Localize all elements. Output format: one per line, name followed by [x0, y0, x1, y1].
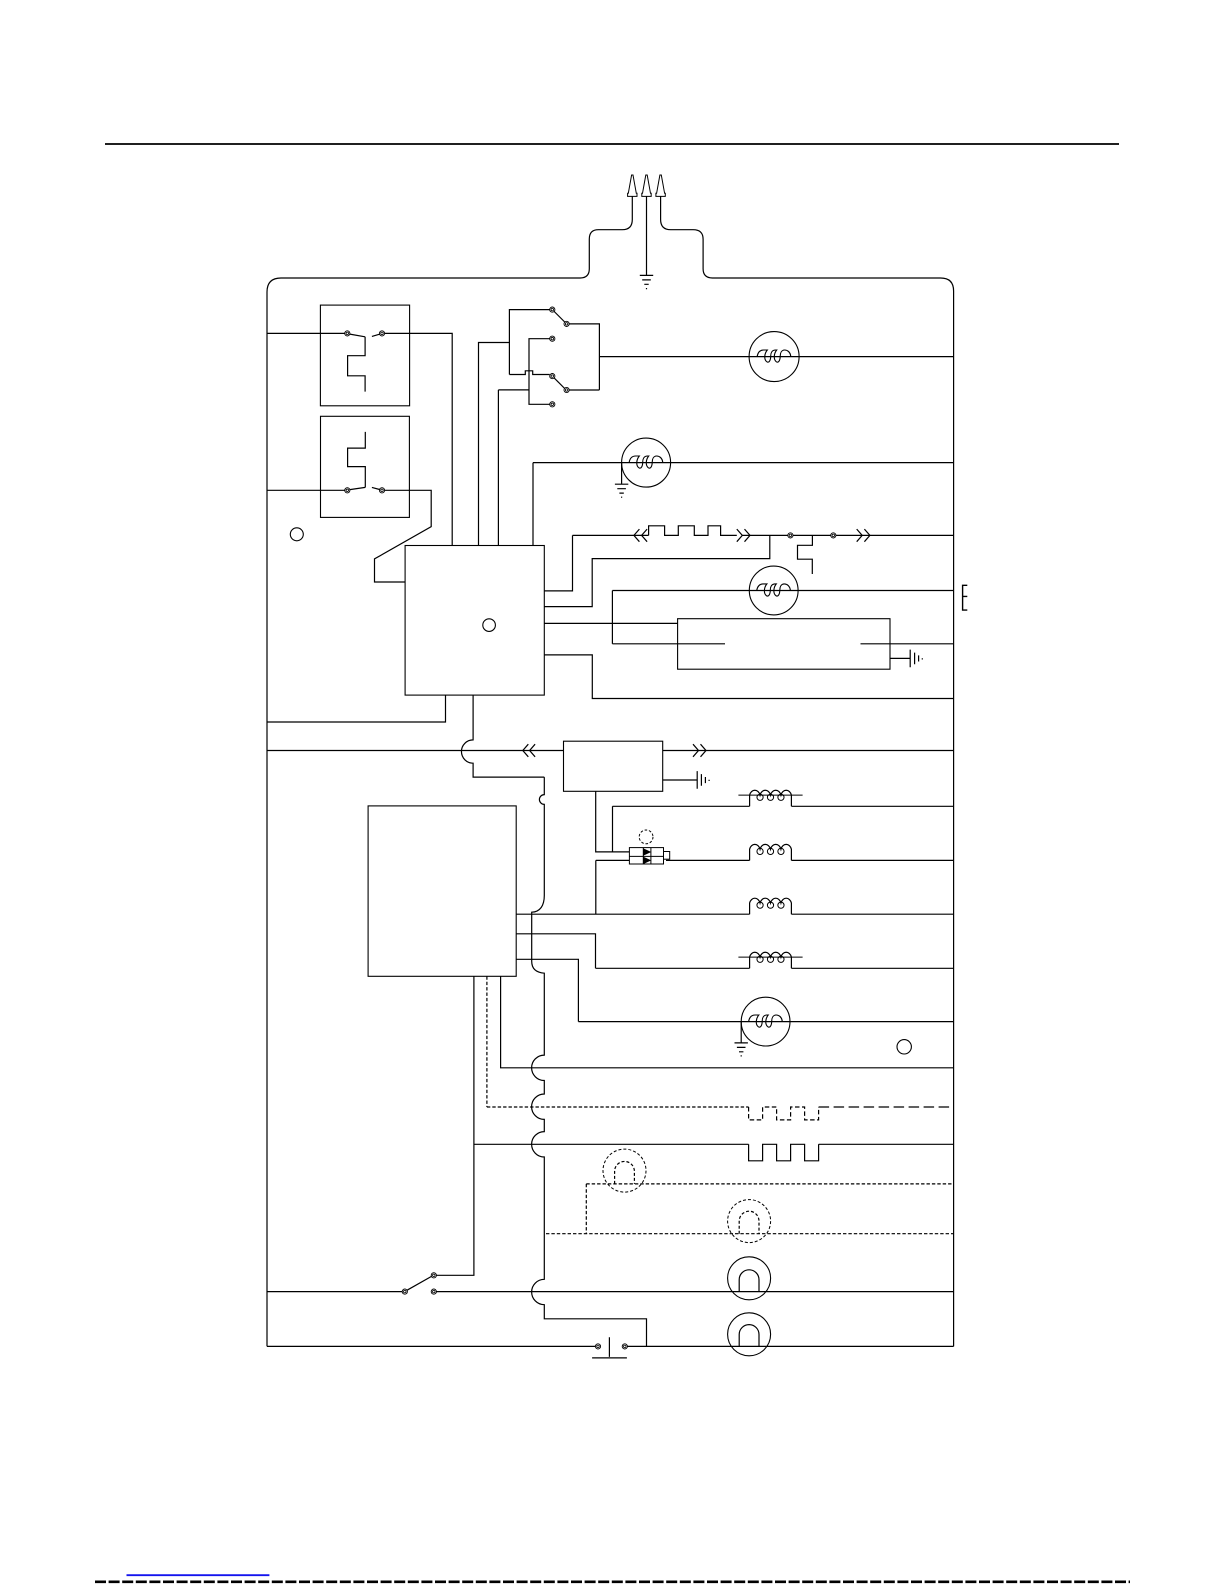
- door switch upper terminal: [431, 1273, 436, 1278]
- wire: timer output to condenser fan: [516, 959, 953, 1021]
- footer link underline: [127, 1574, 270, 1576]
- circle marker inside control box: [483, 619, 496, 632]
- defrost thermostat terminal 2: [831, 533, 836, 538]
- wire: left edge to door switch: [267, 1291, 403, 1293]
- terminal circle: [345, 331, 350, 336]
- defrost heater element: [649, 526, 737, 536]
- wire: evap fan circuit to control box and right edge: [533, 463, 954, 546]
- timer connector box: [564, 741, 663, 791]
- plug prong right: [656, 175, 665, 196]
- wire: compressor wire down to start winding plate: [611, 591, 613, 644]
- wire: T5 right: [569, 389, 599, 391]
- dashed lamp link vertical: [585, 1184, 587, 1234]
- wire: left edge to thermostat 2: [267, 489, 345, 491]
- free circle marker right: [897, 1040, 911, 1054]
- mullion heater element: [749, 1144, 819, 1161]
- chassis ground sideways at timer connector: [697, 771, 709, 789]
- door switch common terminal: [402, 1289, 407, 1294]
- wire: control box to lower bus and right edge: [544, 655, 953, 699]
- free circle marker upper left: [290, 528, 303, 541]
- wire: timer bottom to mullion line: [501, 976, 954, 1068]
- thermostat 2 blade: [350, 487, 380, 489]
- defrost thermostat bimetal: [798, 535, 813, 574]
- wire: control box bottom down with hop to distribution column: [461, 695, 544, 777]
- mullion heater line right: [819, 1143, 954, 1145]
- plug prong left: [628, 175, 637, 196]
- wire: control box to defrost heater line: [544, 535, 572, 591]
- condenser fan motor winding: [749, 1015, 783, 1027]
- dashed lamp wire 2: [546, 1233, 954, 1235]
- defrost thermostat terminal: [788, 533, 793, 538]
- door switch lower terminal: [431, 1289, 436, 1294]
- footer dashed rule: [95, 1581, 1130, 1584]
- ground stub from protector housing: [890, 657, 910, 659]
- header rule: [105, 143, 1119, 145]
- diode bottom (filled): [644, 857, 651, 863]
- thermostat 1 blade: [350, 334, 380, 337]
- defrost heater line left: [573, 534, 649, 536]
- switch blade T1-T2: [554, 312, 565, 323]
- evaporator fan motor circle: [622, 438, 671, 487]
- wire: junction down to control box top: [497, 390, 499, 546]
- freezer fan motor circle: [749, 332, 799, 382]
- solenoid coil 4: [750, 952, 792, 968]
- thermostat box 2 (refrigerator control): [321, 416, 410, 517]
- wire: lower junction to vertical: [498, 389, 529, 391]
- wire: coil4 to right edge: [791, 967, 953, 969]
- compressor run wire: [612, 590, 953, 592]
- wire: timer box to coil4: [516, 934, 749, 969]
- wire: door switch to lamps line: [436, 1291, 953, 1293]
- earth ground symbol at condenser fan: [735, 1043, 748, 1056]
- dashed indicator circle above thermal fuse: [639, 830, 653, 844]
- interior lamp filament: [739, 1270, 759, 1292]
- dashed drain heater line: [487, 1106, 749, 1108]
- thermostat box 1 (freezer control): [320, 305, 409, 406]
- wire: T1 left and down to junction: [509, 310, 549, 375]
- ground stub from timer connector: [663, 779, 698, 781]
- pushbutton terminal left: [595, 1344, 600, 1349]
- connector chevrons <<: [634, 529, 647, 542]
- damper switch terminal T1: [550, 307, 555, 312]
- dashed refrigerator lamp circle: [728, 1200, 771, 1243]
- enclosure bottom edge left part: [267, 1345, 595, 1347]
- dashed drain heater tail: [819, 1106, 954, 1108]
- dashed refrigerator lamp filament: [739, 1211, 759, 1234]
- plug prong center: [642, 175, 651, 196]
- damper switch terminal T2: [564, 321, 569, 326]
- dashed wire: timer bottom to drain heater: [486, 976, 488, 1107]
- connector chevrons >> right: [857, 529, 870, 542]
- thermostat 1 bimetal element: [348, 337, 366, 392]
- defrost timer box: [368, 806, 516, 976]
- defrost control box: [405, 546, 544, 696]
- terminal circle: [345, 488, 350, 493]
- wire: T3 to vertical and T6: [529, 339, 550, 405]
- earth ground symbol under plug: [640, 275, 653, 288]
- solenoid coil 3: [750, 898, 792, 914]
- wire: coil3 to right edge: [791, 913, 953, 915]
- diode top (filled): [644, 849, 651, 855]
- wire: timer bottom left down to door switch: [436, 976, 474, 1275]
- damper switch terminal T4: [550, 374, 555, 379]
- internal overload plate right to right edge: [861, 643, 954, 645]
- connector chevrons << at timer: [523, 744, 535, 757]
- long distribution wire with hops: [532, 777, 647, 1346]
- defrost heater line right: [742, 534, 953, 536]
- ground wire from center prong: [646, 196, 648, 275]
- evaporator fan motor winding: [629, 456, 663, 468]
- solenoid coil 2: [750, 844, 792, 860]
- wire: diode bottom-left down to coil3 line: [596, 860, 630, 914]
- power cord left / enclosure left edge: [267, 196, 632, 1346]
- wire: control box bottom to left edge: [267, 695, 446, 722]
- interior lamp circle: [728, 1257, 771, 1300]
- condenser fan motor circle: [741, 997, 790, 1046]
- wire: timer box to coil3: [516, 913, 749, 915]
- dashed freezer lamp filament: [615, 1161, 635, 1183]
- wire: coil2 to right edge: [791, 859, 953, 861]
- wire: thermal fuse tab to coil2: [666, 859, 750, 861]
- diode block mid line: [629, 855, 663, 857]
- wire: switch output to right edge through fan motor: [599, 356, 953, 358]
- wire: left edge to thermostat 1: [267, 332, 345, 334]
- terminal circle: [379, 488, 384, 493]
- wire: T2 right edge vertical: [569, 324, 599, 390]
- wire: timer connector output down to thermal fuse: [596, 791, 630, 852]
- thermostat 2 bimetal element: [348, 432, 366, 488]
- wire: thermostat 1 to control box top: [385, 333, 453, 545]
- lower lamp filament: [739, 1325, 759, 1347]
- wire: control box to heater feed tee: [544, 535, 770, 606]
- enclosure bottom edge right part: [627, 1345, 953, 1347]
- wire: control box to compressor protector: [544, 622, 677, 624]
- compressor protector housing: [678, 619, 890, 670]
- compressor motor winding: [757, 584, 791, 596]
- dashed freezer lamp circle: [603, 1149, 646, 1192]
- door switch blade: [407, 1276, 431, 1290]
- wire: timer connector to right edge: [663, 750, 954, 752]
- wire: left edge to timer connector: [267, 750, 564, 752]
- pushbutton terminal right: [622, 1344, 627, 1349]
- dashed lamp wire 1: [586, 1183, 953, 1185]
- wire: T4 with hop over crossing: [509, 371, 549, 375]
- thermal fuse / diode block housing: [629, 848, 663, 864]
- switch blade T4-T5: [554, 378, 565, 389]
- connector chevrons >>: [737, 529, 750, 542]
- lower lamp circle: [728, 1313, 771, 1356]
- connector chevrons >> at timer: [693, 744, 706, 757]
- damper switch terminal T6: [550, 402, 555, 407]
- solenoid coil 1: [750, 790, 792, 806]
- wire: coil1 to right edge: [791, 805, 953, 807]
- terminal circle: [379, 331, 384, 336]
- wire: thermostat 2 to control box left: [375, 490, 432, 582]
- damper switch terminal T3: [550, 336, 555, 341]
- chassis ground sideways at compressor: [910, 650, 922, 668]
- diode block right tab: [664, 852, 670, 860]
- mullion heater line: [474, 1143, 749, 1145]
- wire: junction left to control box top: [479, 343, 510, 546]
- wire: solenoid coil1 feed: [613, 806, 750, 852]
- dashed drain heater element: [749, 1107, 819, 1120]
- ground stem at evaporator fan: [621, 463, 623, 484]
- diode block cell dividers: [643, 848, 651, 864]
- pushbutton plunger: [592, 1337, 627, 1358]
- compressor motor circle: [749, 566, 798, 615]
- freezer fan motor winding: [757, 350, 791, 362]
- ground stem at condenser fan: [740, 1022, 742, 1043]
- earth ground symbol at evaporator fan: [615, 484, 628, 497]
- internal overload plate left: [612, 643, 725, 645]
- damper switch terminal T5: [564, 387, 569, 392]
- page connector bracket at right edge: [963, 585, 968, 610]
- power cord right / enclosure right edge: [661, 196, 954, 1346]
